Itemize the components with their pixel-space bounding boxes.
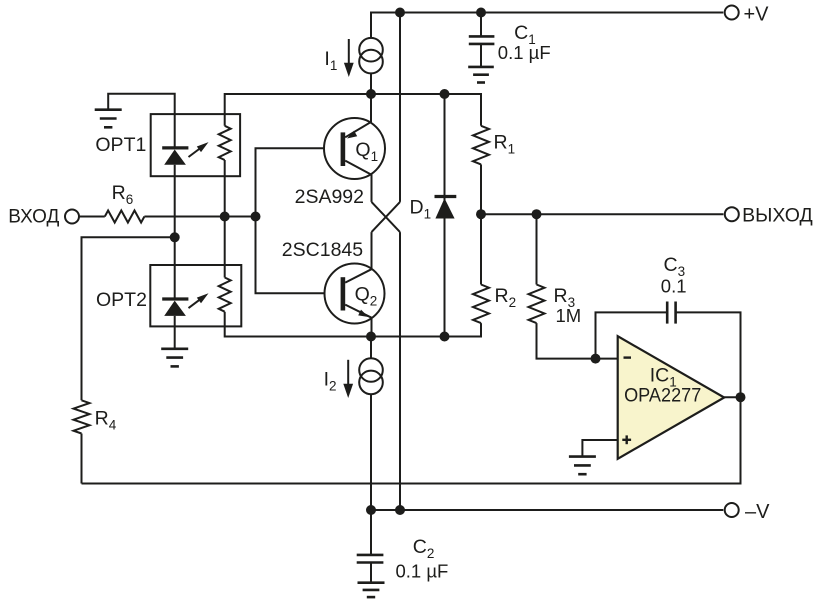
svg-text:ВХОД: ВХОД <box>8 206 59 228</box>
svg-text:R2: R2 <box>495 285 517 310</box>
svg-text:D1: D1 <box>410 197 432 222</box>
svg-text:I2: I2 <box>324 369 337 394</box>
svg-text:OPT2: OPT2 <box>96 289 147 311</box>
svg-text:0.1: 0.1 <box>661 276 687 297</box>
svg-text:R6: R6 <box>112 182 134 207</box>
svg-text:OPA2277: OPA2277 <box>624 385 701 407</box>
svg-text:0.1 µF: 0.1 µF <box>396 561 449 582</box>
svg-text:+V: +V <box>744 4 770 26</box>
svg-text:I1: I1 <box>324 48 337 73</box>
svg-text:–V: –V <box>745 501 770 523</box>
svg-text:R4: R4 <box>95 407 117 432</box>
svg-text:OPT1: OPT1 <box>95 134 146 156</box>
svg-text:C2: C2 <box>413 536 435 561</box>
svg-text:R1: R1 <box>494 132 516 157</box>
svg-text:0.1 µF: 0.1 µF <box>498 42 551 63</box>
svg-text:2SA992: 2SA992 <box>295 186 364 208</box>
svg-text:2SC1845: 2SC1845 <box>282 239 363 261</box>
svg-text:ВЫХОД: ВЫХОД <box>742 205 813 227</box>
svg-text:1M: 1M <box>556 305 582 326</box>
